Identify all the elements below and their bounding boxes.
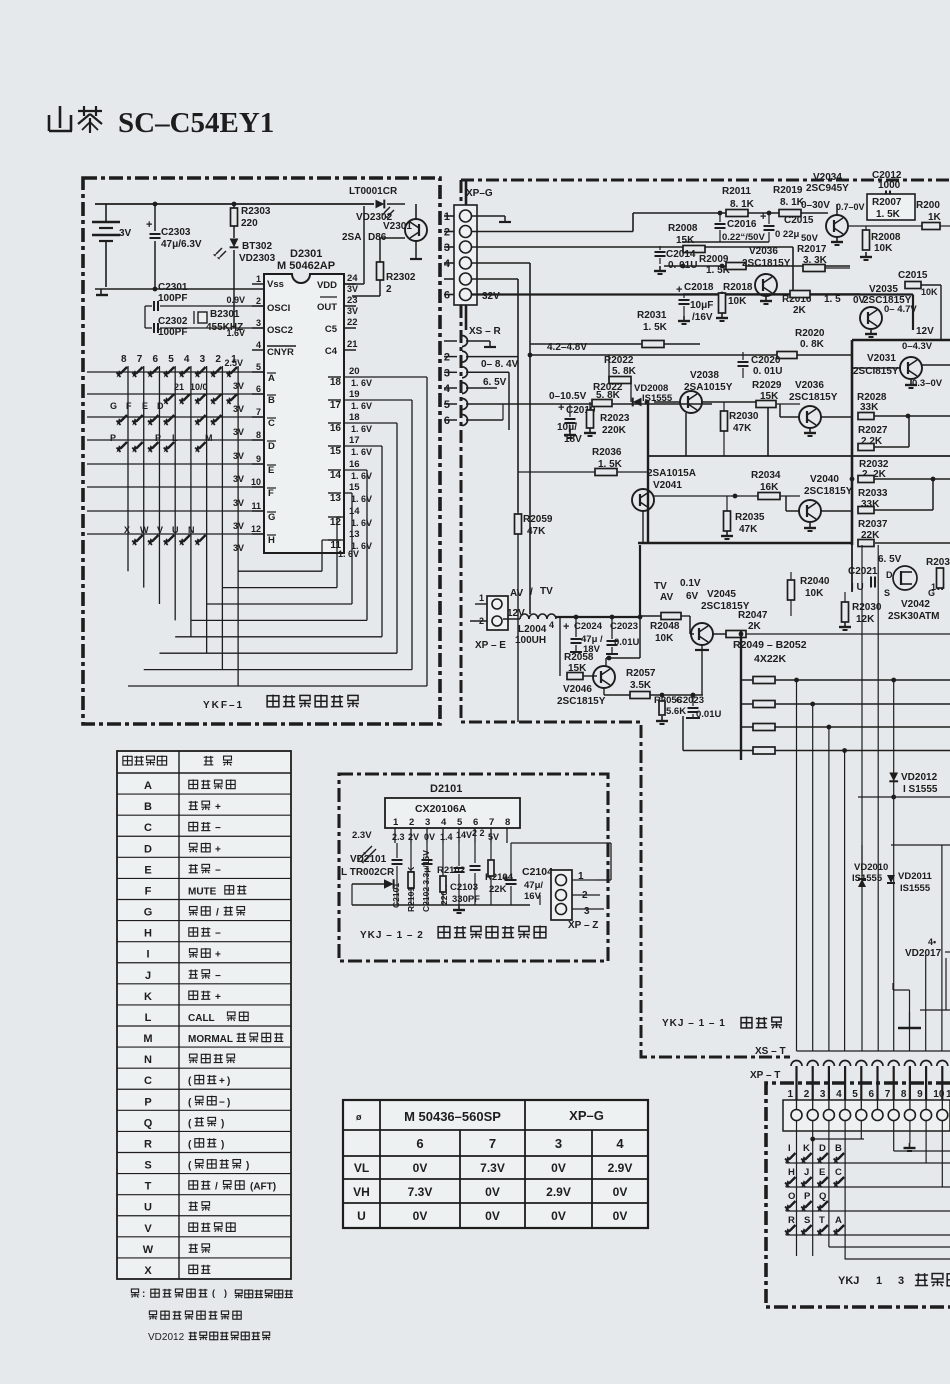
svg-text:U: U xyxy=(357,1209,366,1223)
svg-text:R: R xyxy=(788,1215,795,1226)
photodiode VD2101 LTR002CR xyxy=(341,846,395,889)
svg-text:R200: R200 xyxy=(916,200,940,211)
svg-text:2: 2 xyxy=(256,296,261,306)
svg-text:7: 7 xyxy=(489,817,494,828)
wire fp hook 5 xyxy=(810,1137,864,1142)
resistor R2011 8.1K xyxy=(722,186,755,217)
FET V2042 2SK30ATM xyxy=(884,566,940,622)
IC D2101 pin voltages xyxy=(352,828,499,842)
svg-text:4: 4 xyxy=(184,354,190,365)
svg-text:T: T xyxy=(145,1181,152,1193)
svg-text:1: 1 xyxy=(256,274,261,284)
svg-text:10: 10 xyxy=(251,477,261,487)
svg-text:R2302: R2302 xyxy=(386,272,416,283)
svg-text:C4: C4 xyxy=(325,346,338,357)
svg-text:V2046: V2046 xyxy=(563,684,592,695)
svg-text:2: 2 xyxy=(444,352,450,364)
svg-text:E: E xyxy=(819,1167,825,1178)
svg-text:0–4.3V: 0–4.3V xyxy=(902,341,933,352)
svg-text:P: P xyxy=(144,1096,151,1108)
svg-text:C: C xyxy=(144,1075,152,1087)
svg-text:OSCI: OSCI xyxy=(267,303,290,314)
resistor R2017 3.3K xyxy=(797,244,850,272)
key table row D xyxy=(144,843,221,856)
svg-text:15: 15 xyxy=(349,482,360,493)
svg-text:0V: 0V xyxy=(413,1209,428,1223)
key table row C xyxy=(144,822,221,835)
svg-text:R2034: R2034 xyxy=(751,470,781,481)
svg-text:2: 2 xyxy=(804,1089,810,1100)
svg-text:D: D xyxy=(144,843,152,855)
svg-text:32V: 32V xyxy=(482,291,500,302)
capacitor C2101 vertical text xyxy=(391,883,401,908)
svg-text:TV: TV xyxy=(540,586,553,597)
svg-text:330PF: 330PF xyxy=(452,894,480,905)
capacitor C2102 xyxy=(421,850,433,912)
resistor R2032 2.2K xyxy=(850,459,950,483)
svg-text:1. 5: 1. 5 xyxy=(824,294,841,305)
svg-text:P: P xyxy=(155,433,161,443)
resistor R2023 220K xyxy=(584,402,630,436)
wire loop pin13 xyxy=(238,540,344,571)
svg-text:16: 16 xyxy=(349,459,360,470)
svg-text:C2015: C2015 xyxy=(898,270,928,281)
wire XP-G pin1 ground xyxy=(471,216,511,222)
battery BT 3V xyxy=(92,204,132,287)
svg-text:R203: R203 xyxy=(926,557,950,568)
IC D2301 left pin voltages xyxy=(224,295,245,553)
svg-text:+: + xyxy=(676,284,682,296)
wire loop pin17 xyxy=(175,446,382,637)
svg-text:YKJ: YKJ xyxy=(838,1275,859,1287)
svg-text:B: B xyxy=(268,395,275,406)
svg-text:XP – T: XP – T xyxy=(750,1070,780,1081)
svg-text:): ) xyxy=(224,1288,227,1298)
wire C2104 to XP-Z xyxy=(511,843,611,880)
svg-text:C2024: C2024 xyxy=(574,621,603,632)
capacitor mid xyxy=(470,843,481,905)
svg-text:P: P xyxy=(804,1191,811,1202)
resistor R2302 xyxy=(352,238,416,296)
wire photodiode to pin xyxy=(392,860,403,864)
svg-text:12V: 12V xyxy=(916,326,934,337)
transistor V2041 2SA1015A xyxy=(632,468,696,543)
svg-text:17: 17 xyxy=(330,400,342,411)
svg-text:2V: 2V xyxy=(408,832,419,842)
svg-text:0 22μ: 0 22μ xyxy=(775,229,799,240)
svg-text:W: W xyxy=(143,1244,154,1256)
svg-text:R2048: R2048 xyxy=(650,621,680,632)
label YKJ-1-2 红外接收放大板 xyxy=(360,926,546,941)
svg-text:−: − xyxy=(215,865,221,876)
key matrix fp labels O P Q xyxy=(788,1191,826,1202)
svg-text:0– 8. 4V: 0– 8. 4V xyxy=(481,359,519,370)
svg-text:14: 14 xyxy=(330,470,342,481)
key matrix fp diodes row 3 xyxy=(785,1201,828,1212)
svg-text:12V: 12V xyxy=(507,608,525,619)
svg-text:V2040: V2040 xyxy=(810,474,839,485)
capacitor C2104 47u/16V xyxy=(502,843,553,905)
svg-text:6: 6 xyxy=(473,817,478,828)
svg-text:4: 4 xyxy=(616,1136,624,1151)
svg-text:10K: 10K xyxy=(805,588,824,599)
diode VD2011 IS1555 xyxy=(887,871,933,894)
svg-text:R2029: R2029 xyxy=(752,380,782,391)
resistor R2033 33K xyxy=(858,479,933,514)
voltage table pin numbers xyxy=(416,1136,624,1151)
svg-text:VD2011: VD2011 xyxy=(898,871,933,882)
svg-text:0.7–0V: 0.7–0V xyxy=(836,202,865,212)
svg-text:Vss: Vss xyxy=(267,279,284,290)
connector XP-T pins xyxy=(797,1066,943,1100)
svg-text:H: H xyxy=(144,928,152,940)
svg-text:7: 7 xyxy=(489,1136,496,1151)
svg-text:2SA: 2SA xyxy=(342,232,361,243)
svg-text:5. 8K: 5. 8K xyxy=(612,366,637,377)
svg-text:R2057: R2057 xyxy=(626,668,656,679)
svg-text:2SC1815Y: 2SC1815Y xyxy=(789,392,838,403)
svg-text:13: 13 xyxy=(349,529,360,540)
wire fp left vert xyxy=(0,0,1,1)
key table row T xyxy=(145,1180,276,1193)
svg-text:0– 4.7V: 0– 4.7V xyxy=(884,304,917,315)
YKJ-1-2 board dashed border xyxy=(339,774,608,961)
label YKF-1 xyxy=(203,700,244,711)
svg-text:20: 20 xyxy=(349,366,360,377)
title SC-C54EY1 xyxy=(118,107,274,139)
svg-text:Q: Q xyxy=(144,1117,153,1129)
svg-text:7: 7 xyxy=(256,407,261,417)
wire XS-R pin5 xyxy=(466,403,712,405)
svg-text:VDD: VDD xyxy=(317,280,337,291)
key table row C xyxy=(144,1075,230,1088)
svg-text:8: 8 xyxy=(505,817,510,828)
svg-text:H: H xyxy=(788,1167,795,1178)
wire XS-R pin4 xyxy=(466,387,497,389)
wire fp bottom hooks xyxy=(829,1247,950,1259)
svg-text:3V: 3V xyxy=(347,306,358,316)
voltage table header xyxy=(356,1108,604,1124)
svg-text:A: A xyxy=(835,1215,842,1226)
wire XP-G pin2 rail xyxy=(471,231,633,233)
key table row V xyxy=(144,1222,235,1235)
svg-text:C2104: C2104 xyxy=(522,866,553,878)
resistor R2035 47K xyxy=(721,496,765,539)
svg-text:Q: Q xyxy=(819,1191,826,1202)
svg-text:R2035: R2035 xyxy=(735,512,765,523)
svg-text:2.3V: 2.3V xyxy=(352,830,372,841)
svg-text:R2009: R2009 xyxy=(699,254,729,265)
svg-text:3: 3 xyxy=(425,817,430,828)
note line 1 xyxy=(131,1288,293,1300)
svg-text:1: 1 xyxy=(393,817,399,828)
svg-text:5: 5 xyxy=(168,354,174,365)
svg-text:/: / xyxy=(216,908,219,919)
svg-text:VD2017: VD2017 xyxy=(905,948,942,959)
label VD2017 xyxy=(905,937,950,959)
svg-text:4: 4 xyxy=(256,340,261,350)
svg-text:C2023: C2023 xyxy=(610,621,638,632)
svg-text:22K: 22K xyxy=(489,884,507,895)
svg-text:R2017: R2017 xyxy=(797,244,827,255)
svg-text:XP – Z: XP – Z xyxy=(568,920,598,931)
svg-text:L: L xyxy=(145,1012,152,1024)
svg-text:ø: ø xyxy=(356,1112,362,1122)
svg-text:V2036: V2036 xyxy=(795,380,824,391)
key matrix fp diodes row 1 xyxy=(785,1153,844,1164)
wire hline VD2011 xyxy=(862,845,950,877)
svg-text:W: W xyxy=(140,525,149,535)
crystal B2301 455KHZ xyxy=(194,309,243,333)
wire loop pin20 xyxy=(128,377,427,686)
svg-text:V2045: V2045 xyxy=(707,589,736,600)
svg-text:XP – E: XP – E xyxy=(475,640,506,651)
svg-text:R2037: R2037 xyxy=(858,519,888,530)
svg-text:R2019: R2019 xyxy=(773,185,803,196)
svg-text:C2021: C2021 xyxy=(848,566,878,577)
svg-text:R2027: R2027 xyxy=(858,425,888,436)
svg-text:9: 9 xyxy=(917,1089,923,1100)
svg-text:V2035: V2035 xyxy=(869,284,898,295)
wire YKJ-1-2 bottom rail xyxy=(352,843,530,913)
svg-text:K: K xyxy=(803,1143,810,1154)
svg-text:14V: 14V xyxy=(456,830,472,840)
svg-text:16V: 16V xyxy=(524,891,542,902)
svg-text:0V: 0V xyxy=(613,1209,628,1223)
svg-text:22: 22 xyxy=(347,317,358,328)
svg-text:2K: 2K xyxy=(793,305,807,316)
label 12V xyxy=(916,326,934,337)
svg-text:1K: 1K xyxy=(928,212,942,223)
svg-text:R2040: R2040 xyxy=(800,576,830,587)
ground battery xyxy=(96,289,108,295)
transistor V2040 2SC1815Y xyxy=(786,474,853,531)
wire rail C xyxy=(664,264,850,269)
svg-text:VD2303: VD2303 xyxy=(239,253,276,264)
svg-text:C2101: C2101 xyxy=(391,883,401,908)
svg-text:2: 2 xyxy=(409,817,414,828)
svg-text:D: D xyxy=(157,401,164,411)
svg-text:V: V xyxy=(144,1223,152,1235)
LED VD2303 BT302 xyxy=(213,226,276,328)
svg-text:R: R xyxy=(144,1138,152,1150)
resistor ladder R2049 xyxy=(741,631,950,760)
svg-text:10/0: 10/0 xyxy=(190,382,208,392)
wire heavy bus right box xyxy=(638,340,950,592)
key table row E xyxy=(144,864,221,876)
wire loop pin14 xyxy=(222,517,344,588)
svg-text:SC–C54EY1: SC–C54EY1 xyxy=(118,107,274,139)
key table row L xyxy=(145,1011,249,1024)
svg-text:14: 14 xyxy=(349,506,360,517)
svg-text:1: 1 xyxy=(788,1089,794,1100)
svg-text:R2023: R2023 xyxy=(600,413,630,424)
svg-text:+: + xyxy=(215,950,221,961)
wire right edge box xyxy=(920,958,950,1010)
svg-text:V2038: V2038 xyxy=(690,370,719,381)
title 山茶 xyxy=(49,106,102,133)
svg-text:100UH: 100UH xyxy=(515,635,546,646)
transistor V2034 2SC945Y xyxy=(806,172,865,245)
svg-text:4.2–4.8V: 4.2–4.8V xyxy=(547,342,587,353)
svg-text:47K: 47K xyxy=(739,524,758,535)
svg-text:4•: 4• xyxy=(928,937,936,947)
key table row P xyxy=(144,1096,230,1109)
svg-text:J: J xyxy=(804,1167,809,1178)
svg-text:7.3V: 7.3V xyxy=(480,1161,505,1175)
svg-text:16K: 16K xyxy=(760,482,779,493)
resistor R2029 15K xyxy=(752,380,800,408)
key table row B xyxy=(144,801,221,813)
connector XP-E xyxy=(470,593,508,651)
svg-text:21: 21 xyxy=(347,339,358,350)
wire XS-R pin1 ground xyxy=(466,341,496,347)
svg-text:V2031: V2031 xyxy=(867,353,896,364)
svg-text:C2015: C2015 xyxy=(784,215,814,226)
svg-text:2SC1815Y: 2SC1815Y xyxy=(804,486,853,497)
inductor L2004 100UH xyxy=(503,614,642,646)
resistor R2028 33K xyxy=(857,392,950,420)
svg-text:R2033: R2033 xyxy=(858,488,888,499)
resistor R2008 10K vertical xyxy=(860,226,901,260)
svg-text:2.3: 2.3 xyxy=(392,832,405,842)
svg-text:F: F xyxy=(126,401,132,411)
svg-text:12: 12 xyxy=(251,524,261,534)
label 0-30V xyxy=(801,200,830,211)
resistor R2027 2.2K xyxy=(858,416,909,451)
resistor R2030 47K xyxy=(721,402,759,456)
capacitor C2023 0.01U a xyxy=(606,617,639,654)
resistor R2102 220K xyxy=(437,865,465,905)
svg-text:23: 23 xyxy=(347,295,358,306)
IC D2301 M50462AP xyxy=(264,248,344,553)
key matrix labels P P L M xyxy=(110,433,213,443)
svg-text:R2047: R2047 xyxy=(738,610,768,621)
svg-text:6: 6 xyxy=(444,290,450,302)
voltage table row VL xyxy=(354,1161,633,1175)
svg-text:B: B xyxy=(144,801,152,813)
key matrix diodes row 4 xyxy=(117,442,206,453)
svg-text:18V: 18V xyxy=(564,434,582,445)
svg-text:R2031: R2031 xyxy=(637,310,667,321)
key table row F xyxy=(145,885,247,898)
svg-text:C2303: C2303 xyxy=(161,227,191,238)
svg-text:G: G xyxy=(144,907,153,919)
svg-text:2K: 2K xyxy=(748,621,762,632)
capacitor C2024 47u/18V xyxy=(563,617,603,655)
resistor R2004 1K xyxy=(848,200,950,230)
svg-text:0. 01U: 0. 01U xyxy=(668,260,697,271)
svg-text:1. 6V: 1. 6V xyxy=(338,549,359,559)
svg-text:YKF–1: YKF–1 xyxy=(203,700,244,711)
svg-text:2SC945Y: 2SC945Y xyxy=(806,183,849,194)
svg-text:24: 24 xyxy=(347,273,358,284)
svg-text:3: 3 xyxy=(820,1089,826,1100)
svg-text:R2049 – B2052: R2049 – B2052 xyxy=(733,639,807,651)
svg-text:3: 3 xyxy=(555,1136,562,1151)
svg-text:CX20106A: CX20106A xyxy=(415,803,467,815)
resistor R2016 2K xyxy=(782,291,841,317)
key matrix fp labels H J E C xyxy=(788,1167,842,1178)
key table row X xyxy=(144,1264,210,1277)
svg-text:16: 16 xyxy=(330,423,342,434)
svg-text:1. 6V: 1. 6V xyxy=(351,401,372,411)
svg-text:IS1555: IS1555 xyxy=(852,873,883,884)
resistor R2009 1.5K xyxy=(699,254,746,276)
label 0-4.3V xyxy=(902,341,933,352)
svg-text:18: 18 xyxy=(330,377,342,388)
label R2049-B2052 4X22K xyxy=(733,639,807,665)
svg-text:3: 3 xyxy=(444,367,450,379)
wire XP-G pin5 xyxy=(471,279,518,512)
svg-text:C5: C5 xyxy=(325,324,338,335)
svg-text:0V: 0V xyxy=(413,1161,428,1175)
resistor R2038 1W xyxy=(926,557,950,592)
wire loop pin15 xyxy=(207,493,352,604)
svg-text:YKJ – 1 – 1: YKJ – 1 – 1 xyxy=(662,1018,726,1029)
svg-text:2: 2 xyxy=(215,354,221,365)
wire heavy v left mid xyxy=(639,545,641,658)
svg-text:+: + xyxy=(215,992,221,1003)
svg-text:R2030: R2030 xyxy=(729,411,759,422)
svg-text:8: 8 xyxy=(121,354,127,365)
resistor R2022 5.8K upper xyxy=(604,355,637,402)
svg-text:11: 11 xyxy=(251,501,261,511)
svg-text:1. 5K: 1. 5K xyxy=(643,322,668,333)
svg-text:0V: 0V xyxy=(424,832,435,842)
key table header 接键代号 / 功能 xyxy=(123,755,232,765)
capacitor C2302 100PF xyxy=(145,316,264,338)
svg-text:1: 1 xyxy=(876,1275,882,1287)
capacitor C2023 0.01U b xyxy=(676,695,721,720)
key table row J xyxy=(145,970,221,982)
svg-text:2.9V: 2.9V xyxy=(546,1185,571,1199)
svg-text:C: C xyxy=(268,418,275,429)
svg-text:1.4: 1.4 xyxy=(440,832,453,842)
svg-text:6: 6 xyxy=(444,415,450,427)
svg-text:/16V: /16V xyxy=(692,312,713,323)
svg-text:6. 5V: 6. 5V xyxy=(878,554,902,565)
capacitor C2015 0.22u 50V xyxy=(760,211,819,244)
resistor R2007 1.5K box xyxy=(867,194,915,220)
svg-text:12: 12 xyxy=(330,517,342,528)
connector XP-G xyxy=(444,180,500,330)
svg-text:S: S xyxy=(804,1215,810,1226)
svg-text:1.6V: 1.6V xyxy=(226,328,245,338)
svg-text:V: V xyxy=(157,525,163,535)
svg-text:3V: 3V xyxy=(119,228,132,239)
svg-text:G: G xyxy=(110,401,117,411)
svg-text::: : xyxy=(142,1289,145,1300)
svg-text:6: 6 xyxy=(256,384,261,394)
svg-text:1. 6V: 1. 6V xyxy=(351,424,372,434)
svg-text:0.01U: 0.01U xyxy=(614,637,639,648)
svg-text:M 50436–560SP: M 50436–560SP xyxy=(404,1109,501,1124)
capacitor C2019 10u/18V xyxy=(557,402,596,445)
wire XS-R pin6 xyxy=(466,404,503,420)
svg-text:6V: 6V xyxy=(686,591,699,602)
capacitor C2016 0.22u/50V xyxy=(715,213,766,243)
svg-text:C2103: C2103 xyxy=(450,882,478,893)
svg-text:0. 01U: 0. 01U xyxy=(753,366,782,377)
svg-text:B: B xyxy=(835,1143,842,1154)
IC D2101 CX20106A xyxy=(385,783,520,828)
XP-T pin numbers xyxy=(788,1089,950,1100)
connector XP-Z xyxy=(551,870,604,931)
svg-text:(AFT): (AFT) xyxy=(250,1182,276,1193)
svg-text:7: 7 xyxy=(885,1089,891,1100)
transistor V2045 2SC1815Y xyxy=(690,589,750,695)
